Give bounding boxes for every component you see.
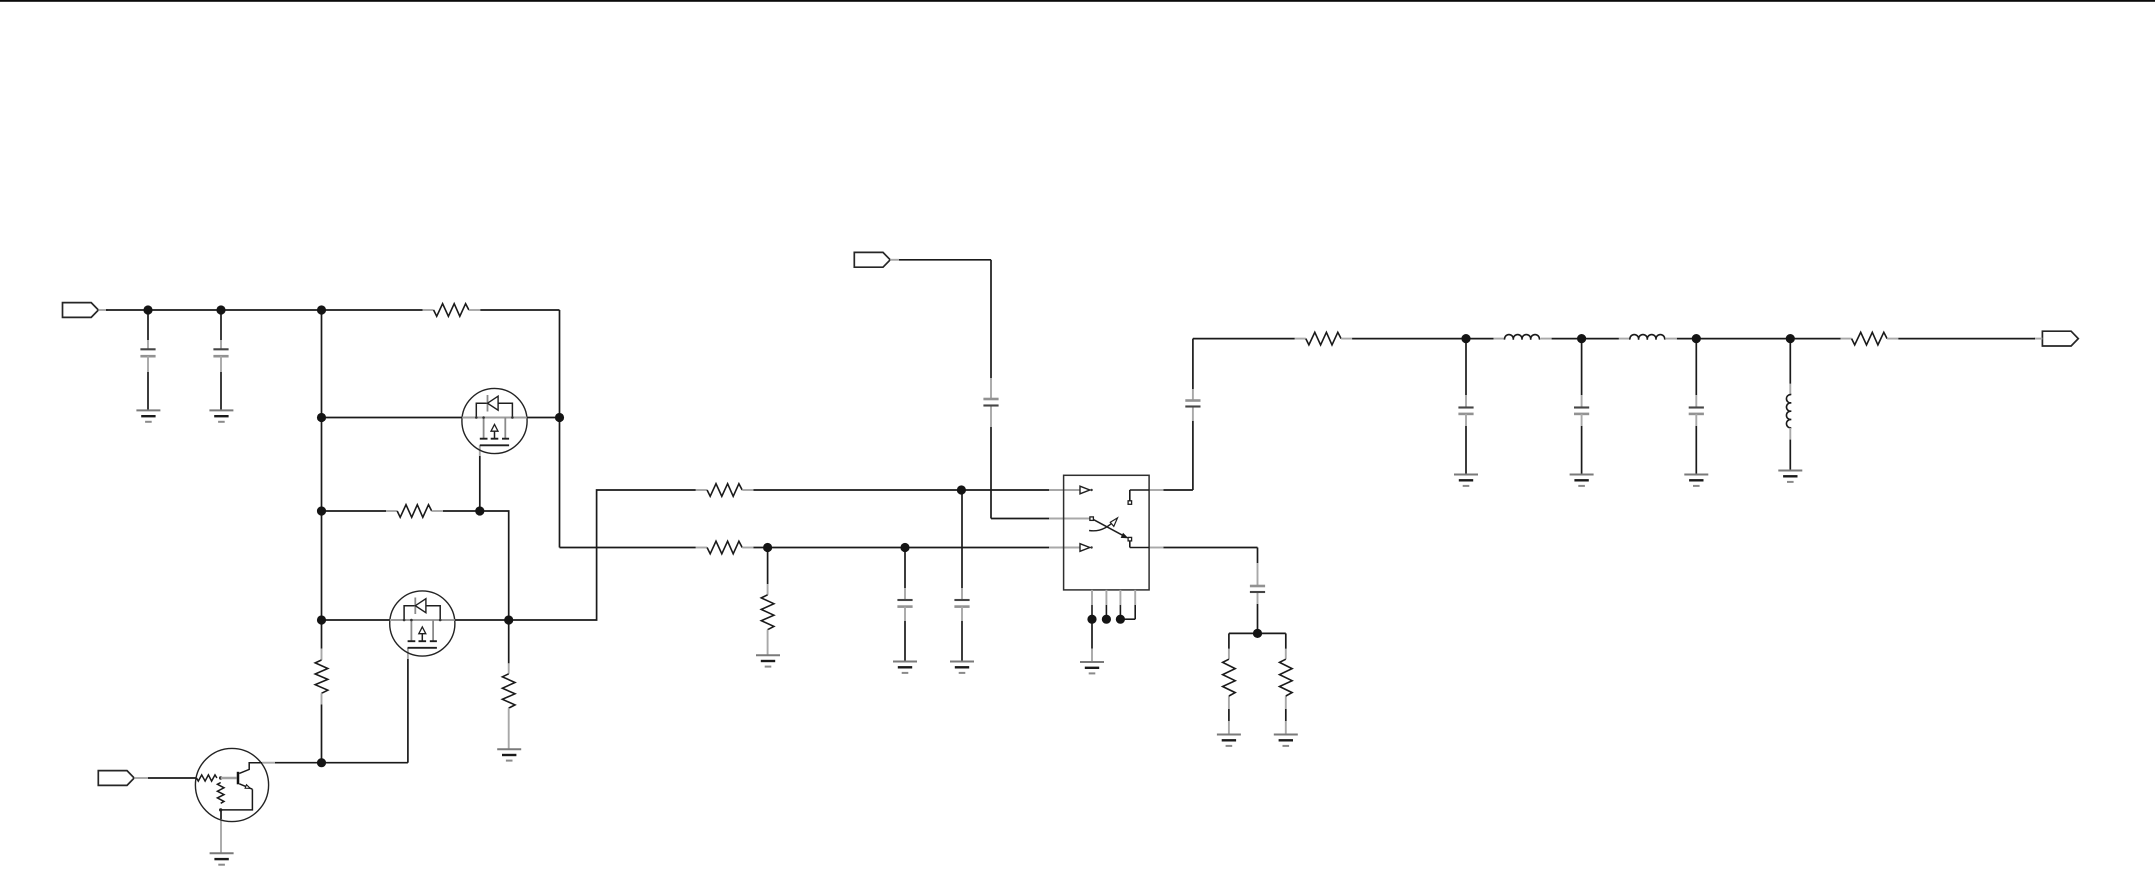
p-mosfet Q2 xyxy=(390,591,455,656)
node J2 xyxy=(216,305,225,314)
ground (R4) xyxy=(497,749,521,760)
node J5 xyxy=(317,413,326,422)
resistor R5 (line A) xyxy=(696,484,754,497)
ground (C8) xyxy=(1454,475,1478,486)
resistor R2 xyxy=(386,505,443,518)
wire bus below R3 xyxy=(321,704,323,762)
wire L1 leads xyxy=(1494,338,1552,340)
wire R1 to corner xyxy=(480,309,559,311)
wire bus to Q2 source xyxy=(322,619,391,621)
inductor L1 xyxy=(1505,335,1540,340)
node J8 xyxy=(317,615,326,624)
wire C5 bottom lead xyxy=(990,406,992,519)
wire Q2 drain to node xyxy=(455,619,509,621)
wire switch out B xyxy=(1149,547,1257,549)
wire U1 pins to ground xyxy=(1091,619,1093,662)
ground (U1) xyxy=(1080,662,1104,673)
input port P2 (control) xyxy=(854,252,899,267)
wire main line seg4 xyxy=(1898,338,2035,340)
wire input bus y=310 xyxy=(106,309,423,311)
node J7 xyxy=(475,506,484,515)
node J19 xyxy=(1577,334,1586,343)
wire supply bus x=321.5 xyxy=(321,310,323,649)
inductor L3 (shunt) xyxy=(1786,339,1791,471)
wire corner to RB xyxy=(560,547,696,549)
node J9 xyxy=(504,615,513,624)
ground (C10) xyxy=(1684,475,1708,486)
node J17 xyxy=(1116,615,1125,624)
resistor R9 xyxy=(1280,659,1293,696)
ground (R8) xyxy=(1217,735,1241,746)
wire R4 top lead xyxy=(508,620,510,663)
output port P4 xyxy=(2034,331,2078,346)
node J4 xyxy=(555,413,564,422)
resistor R10 xyxy=(1841,332,1899,345)
ground (L3) xyxy=(1778,471,1802,482)
p-mosfet Q1 xyxy=(462,388,527,453)
wire C6 bottom lead xyxy=(1192,407,1194,490)
node J20 xyxy=(1692,334,1701,343)
capacitor C6 (series) xyxy=(1185,401,1200,407)
inductor L2 xyxy=(1630,335,1665,340)
wire main line seg1 xyxy=(1352,338,1494,340)
wire R9 top lead xyxy=(1285,633,1287,659)
ground (C1) xyxy=(136,410,160,421)
ground (C3) xyxy=(893,662,917,673)
node J14 xyxy=(1253,629,1262,638)
capacitor C1 xyxy=(140,310,155,410)
wire main line seg2 xyxy=(1552,338,1619,340)
ground (C4) xyxy=(950,662,974,673)
node J21 xyxy=(1786,334,1795,343)
wire C7 bottom lead xyxy=(1257,592,1259,633)
node J13 xyxy=(957,485,966,494)
wire R8 top lead xyxy=(1228,633,1230,659)
wire gate node to x=508.7 xyxy=(480,511,509,620)
resistor R3 (bus) xyxy=(315,649,328,705)
capacitor C3 xyxy=(897,548,912,662)
wire C7 top lead xyxy=(1257,548,1259,587)
resistor R4 xyxy=(502,663,515,749)
ground (C2) xyxy=(209,410,233,421)
node J12 xyxy=(900,543,909,552)
node J10 xyxy=(317,758,326,767)
capacitor C8 xyxy=(1458,339,1473,475)
resistor R6 (line B) xyxy=(696,541,754,554)
resistor R11 xyxy=(1295,332,1352,345)
wire main line seg0 xyxy=(1193,338,1295,340)
node J1 xyxy=(143,305,152,314)
wire Q2 gate lead xyxy=(407,648,409,763)
resistor R7 xyxy=(761,584,774,655)
wire line A to switch xyxy=(753,489,1080,491)
input port P1 xyxy=(63,303,109,318)
wire C6 top lead xyxy=(1192,339,1194,400)
capacitor C4 xyxy=(954,490,969,662)
wire R9 bottom lead xyxy=(1285,696,1287,735)
wire Q1 gate lead xyxy=(479,445,481,511)
node J6 xyxy=(317,506,326,515)
ground (R9) xyxy=(1274,735,1298,746)
wire P3 to Q3 xyxy=(148,777,196,779)
wire bus to Q1 source xyxy=(322,417,463,419)
ground (Q3) xyxy=(210,853,234,864)
wire R2 to gate node xyxy=(443,510,480,512)
node J18 xyxy=(1461,334,1470,343)
wire Q3 collector row xyxy=(262,762,408,764)
node J16 xyxy=(1102,615,1111,624)
resistor R8 xyxy=(1223,659,1236,696)
wire control into switch xyxy=(991,518,1090,520)
wire main line seg3 xyxy=(1677,338,1841,340)
node J3 xyxy=(317,305,326,314)
wire P2 to corner xyxy=(899,259,991,261)
wire bus to R2 xyxy=(322,510,387,512)
resistor R1 xyxy=(423,304,481,317)
wire node to line A riser xyxy=(509,490,696,620)
capacitor C2 xyxy=(213,310,228,410)
wire Q3 emitter to ground xyxy=(220,810,222,853)
ground (R7) xyxy=(756,655,780,666)
analog switch U1 xyxy=(1064,475,1150,619)
wire R7 top lead xyxy=(767,548,769,585)
capacitor C7 (series) xyxy=(1250,586,1265,592)
wire vertical x=559.5 xyxy=(559,310,561,548)
wire L2 leads xyxy=(1619,338,1677,340)
ground (C9) xyxy=(1570,475,1594,486)
wire switch out A xyxy=(1149,489,1193,491)
node J15 xyxy=(1087,615,1096,624)
wire C5 top lead xyxy=(990,260,992,399)
wire R8 bottom lead xyxy=(1228,696,1230,735)
capacitor C10 xyxy=(1689,339,1704,475)
npn digital transistor Q3 xyxy=(195,748,268,821)
wire node to R8 R9 xyxy=(1229,632,1286,634)
capacitor C5 (series) xyxy=(983,399,998,406)
wire line B to switch xyxy=(753,547,1080,549)
input port P3 (enable) xyxy=(98,771,148,786)
wire Q1 drain to node xyxy=(527,417,560,419)
capacitor C9 xyxy=(1574,339,1589,475)
node J11 xyxy=(763,543,772,552)
